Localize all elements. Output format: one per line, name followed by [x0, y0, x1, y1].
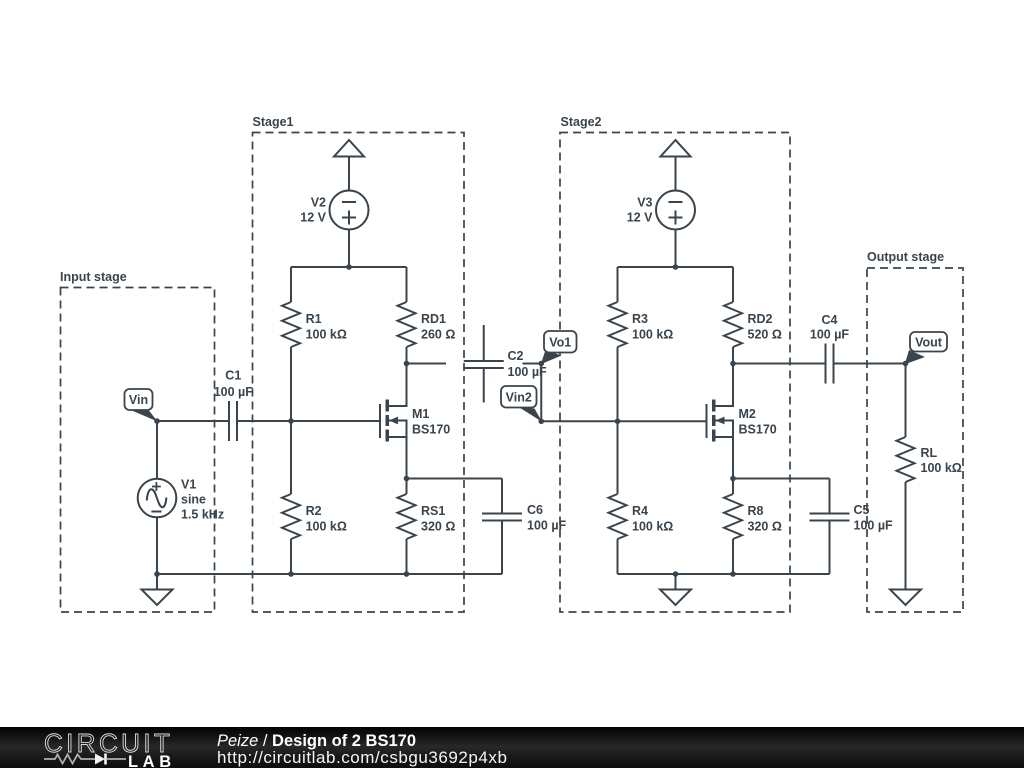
wire drain stub right	[407, 363, 447, 365]
svg-text:R4: R4	[632, 504, 648, 518]
wire Vin2 to M2 gate	[541, 420, 706, 422]
CircuitLab logo	[44, 730, 173, 756]
wire V3 to rail	[675, 230, 677, 268]
wire source node to C5	[733, 478, 830, 480]
source V3	[656, 191, 695, 230]
wire source node to C6	[407, 478, 503, 480]
svg-text:100 kΩ: 100 kΩ	[306, 327, 347, 341]
svg-text:C2: C2	[508, 349, 524, 363]
wire drain node to M1	[406, 364, 408, 407]
wire R1 to gate node	[290, 347, 292, 494]
svg-text:Output stage: Output stage	[867, 250, 944, 264]
svg-text:Vin: Vin	[129, 393, 148, 407]
wire R3 to gate node	[617, 347, 619, 494]
svg-text:Input stage: Input stage	[60, 270, 127, 284]
svg-text:100 kΩ: 100 kΩ	[632, 327, 673, 341]
svg-text:100 kΩ: 100 kΩ	[921, 461, 962, 475]
ground (output)	[905, 574, 907, 590]
svg-text:R1: R1	[306, 312, 322, 326]
schematic url	[217, 749, 507, 768]
svg-text:260 Ω: 260 Ω	[421, 327, 455, 341]
svg-text:Vo1: Vo1	[549, 335, 571, 349]
capacitor C5	[829, 479, 831, 514]
svg-text:100 kΩ: 100 kΩ	[306, 519, 347, 533]
node Vo1	[541, 350, 562, 364]
wire bottom rail input/stage1	[157, 573, 502, 575]
resistor RD2	[732, 267, 734, 302]
svg-text:R3: R3	[632, 312, 648, 326]
wire C6 to rail	[501, 521, 503, 575]
capacitor C1	[228, 401, 230, 441]
svg-text:BS170: BS170	[412, 423, 450, 437]
svg-text:320 Ω: 320 Ω	[748, 519, 782, 533]
wire M2 source to R8	[732, 437, 734, 479]
svg-text:M2: M2	[739, 407, 756, 421]
svg-text:12 V: 12 V	[627, 211, 653, 225]
svg-text:V1: V1	[181, 478, 196, 492]
resistor RS1	[406, 479, 408, 495]
schematic title	[217, 732, 416, 750]
ground (input stage)	[156, 574, 158, 590]
wire M1 source to RS1	[406, 437, 408, 479]
wire Vo1 stub	[523, 363, 542, 365]
svg-text:Vout: Vout	[915, 335, 943, 349]
wire R8 to rail	[732, 539, 734, 574]
wire supply rail stage1	[291, 266, 407, 268]
svg-text:100 µF: 100 µF	[854, 518, 894, 532]
svg-text:V3: V3	[637, 196, 652, 210]
wire C5 to rail	[829, 521, 831, 575]
resistor RD1	[406, 267, 408, 302]
svg-text:sine: sine	[181, 493, 206, 507]
wire drain node to M2	[732, 364, 734, 407]
resistor R1	[290, 267, 292, 302]
wire V1 to ground rail	[156, 517, 158, 574]
capacitor C4	[825, 344, 827, 384]
svg-text:320 Ω: 320 Ω	[421, 519, 455, 533]
wire R2 to rail	[290, 539, 292, 574]
resistor R4	[609, 494, 627, 539]
wire RD1 to drain node	[406, 347, 408, 364]
svg-text:R8: R8	[748, 504, 764, 518]
power V+ (stage1)	[334, 140, 364, 157]
svg-text:C5: C5	[854, 503, 870, 517]
svg-text:RD2: RD2	[748, 312, 773, 326]
svg-text:M1: M1	[412, 407, 429, 421]
svg-text:100 µF: 100 µF	[527, 518, 567, 532]
wire RS1 to rail	[406, 539, 408, 574]
Input stage box	[61, 288, 215, 613]
wire bottom rail stage2	[618, 573, 830, 575]
svg-text:RS1: RS1	[421, 504, 445, 518]
svg-text:RD1: RD1	[421, 312, 446, 326]
wire C1 to M1 gate (gate net)	[237, 420, 380, 422]
wire R4 to rail	[617, 539, 619, 574]
node Vout	[905, 350, 925, 364]
svg-text:C6: C6	[527, 503, 543, 517]
wire power to V3	[675, 157, 677, 191]
capacitor C6	[501, 479, 503, 514]
wire RL to ground	[905, 482, 907, 590]
svg-text:RL: RL	[921, 446, 938, 460]
resistor R8	[732, 479, 734, 495]
svg-text:Vin2: Vin2	[506, 390, 532, 404]
transistor M2	[706, 404, 708, 438]
Stage1 box	[253, 133, 465, 613]
Stage2 box	[560, 133, 790, 613]
wire drain node to C4	[733, 363, 826, 365]
svg-text:BS170: BS170	[739, 423, 777, 437]
footer bar	[0, 727, 1024, 768]
svg-text:V2: V2	[311, 196, 326, 210]
node Vin2	[517, 406, 542, 422]
power V+ (stage2)	[661, 140, 691, 157]
wire power to V2	[348, 157, 350, 191]
svg-text:100 kΩ: 100 kΩ	[632, 519, 673, 533]
svg-text:520 Ω: 520 Ω	[748, 327, 782, 341]
Output stage box	[867, 268, 963, 612]
svg-text:Stage1: Stage1	[253, 115, 294, 129]
source V2	[330, 191, 369, 230]
svg-text:1.5 kHz: 1.5 kHz	[181, 508, 224, 522]
source V1	[156, 421, 158, 479]
svg-text:C4: C4	[822, 313, 838, 327]
svg-text:100 µF: 100 µF	[214, 385, 254, 399]
wire Vo1 to Vin2	[540, 364, 542, 422]
transistor M1	[379, 404, 381, 438]
wire V2 to rail	[348, 230, 350, 268]
svg-text:C1: C1	[225, 369, 241, 383]
node Vin	[130, 406, 158, 422]
svg-text:100 µF: 100 µF	[810, 328, 850, 342]
resistor R3	[617, 267, 619, 302]
wire RD2 to drain node	[732, 347, 734, 364]
svg-text:Stage2: Stage2	[561, 115, 602, 129]
ground (stage2)	[675, 574, 677, 590]
resistor R2	[282, 494, 300, 539]
capacitor C2	[483, 325, 485, 361]
svg-text:12 V: 12 V	[300, 211, 326, 225]
wire Vout to RL	[905, 364, 907, 438]
svg-text:R2: R2	[306, 504, 322, 518]
wire Vin to C1	[157, 420, 229, 422]
wire C4 to Vout	[834, 363, 906, 365]
resistor RL	[897, 437, 915, 482]
wire supply rail stage2	[618, 266, 734, 268]
